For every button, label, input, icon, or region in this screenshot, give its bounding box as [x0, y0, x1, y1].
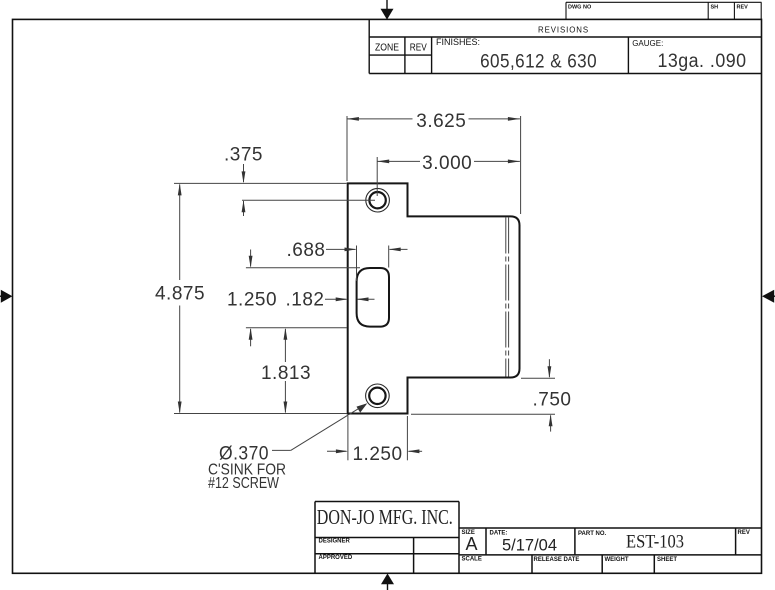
svg-text:REV: REV [737, 5, 749, 11]
svg-text:PART NO.: PART NO. [578, 531, 607, 537]
svg-text:3.000: 3.000 [422, 153, 472, 174]
svg-text:A: A [465, 534, 477, 554]
svg-text:#12 SCREW: #12 SCREW [208, 475, 279, 492]
svg-text:GAUGE:: GAUGE: [632, 39, 663, 48]
svg-text:RELEASE DATE: RELEASE DATE [534, 557, 580, 563]
svg-text:SHEET: SHEET [657, 557, 677, 563]
svg-text:5/17/04: 5/17/04 [502, 535, 557, 554]
svg-text:1.813: 1.813 [261, 363, 311, 384]
svg-text:3.625: 3.625 [416, 111, 466, 132]
svg-text:.182: .182 [286, 289, 325, 310]
svg-text:APPROVED: APPROVED [319, 555, 353, 561]
svg-text:SIZE: SIZE [462, 530, 475, 536]
svg-text:REV: REV [410, 42, 427, 53]
svg-text:DESIGNER: DESIGNER [319, 539, 351, 545]
svg-text:SH: SH [711, 5, 719, 11]
svg-text:FINISHES:: FINISHES: [436, 37, 480, 47]
svg-text:REVISIONS: REVISIONS [538, 24, 589, 34]
svg-text:1.250: 1.250 [352, 444, 402, 465]
svg-text:DWG NO: DWG NO [568, 5, 592, 11]
svg-text:SCALE: SCALE [462, 557, 482, 563]
svg-text:.688: .688 [287, 240, 326, 261]
svg-text:605,612 & 630: 605,612 & 630 [480, 51, 597, 72]
svg-text:4.875: 4.875 [155, 283, 205, 304]
svg-text:1.250: 1.250 [227, 289, 277, 310]
svg-text:DON-JO MFG. INC.: DON-JO MFG. INC. [317, 505, 453, 529]
svg-text:13ga. .090: 13ga. .090 [658, 51, 747, 72]
svg-text:REV: REV [738, 530, 750, 536]
svg-text:.375: .375 [224, 145, 263, 166]
svg-text:WEIGHT: WEIGHT [605, 557, 629, 563]
svg-text:DATE:: DATE: [490, 531, 508, 537]
svg-text:EST-103: EST-103 [626, 531, 684, 552]
svg-text:ZONE: ZONE [375, 42, 399, 53]
svg-text:.750: .750 [533, 389, 572, 410]
